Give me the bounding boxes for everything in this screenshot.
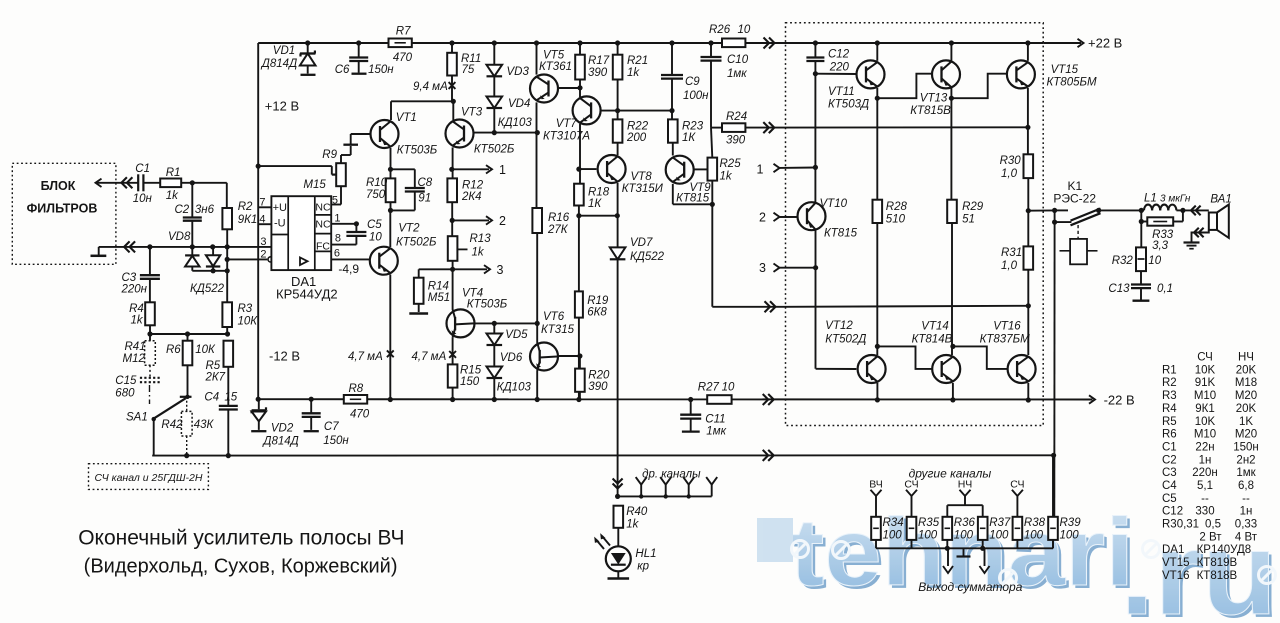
- svg-text:R2: R2: [1162, 377, 1177, 389]
- svg-text:VD2: VD2: [271, 423, 294, 435]
- svg-text:R4: R4: [1162, 403, 1177, 415]
- svg-text:КТ502Б: КТ502Б: [474, 144, 515, 156]
- svg-text:C2: C2: [1162, 454, 1177, 466]
- svg-text:1К: 1К: [682, 132, 696, 144]
- svg-text:390: 390: [588, 381, 608, 393]
- svg-text:100н: 100н: [683, 90, 709, 102]
- svg-text:R16: R16: [548, 212, 570, 224]
- svg-text:R6: R6: [166, 344, 181, 356]
- svg-text:2К4: 2К4: [461, 191, 482, 203]
- svg-text:R38: R38: [1024, 517, 1046, 529]
- svg-text:1мк: 1мк: [706, 426, 726, 438]
- svg-text:КТ315И: КТ315И: [622, 183, 664, 195]
- svg-text:VT7: VT7: [556, 118, 578, 130]
- svg-text:VD3: VD3: [507, 66, 530, 78]
- svg-text:--: --: [1201, 493, 1209, 505]
- svg-text:6: 6: [334, 248, 340, 260]
- svg-text:R6: R6: [1162, 429, 1177, 441]
- svg-text:-12 В: -12 В: [269, 349, 300, 364]
- svg-text:--: --: [1242, 493, 1250, 505]
- svg-text:2: 2: [759, 211, 766, 225]
- svg-text:R22: R22: [627, 121, 649, 133]
- svg-text:VD7: VD7: [630, 237, 653, 249]
- svg-text:1н: 1н: [1240, 506, 1253, 518]
- svg-text:10К: 10К: [238, 316, 259, 328]
- svg-text:1K: 1K: [1239, 416, 1253, 428]
- svg-text:1k: 1k: [131, 315, 144, 327]
- svg-text:+22 В: +22 В: [1088, 36, 1122, 51]
- svg-text:СЧ: СЧ: [1010, 479, 1024, 491]
- svg-text:R35: R35: [918, 517, 940, 529]
- svg-text:1мк: 1мк: [727, 68, 747, 80]
- svg-text:100: 100: [1024, 530, 1044, 542]
- svg-text:СЧ: СЧ: [1197, 352, 1213, 364]
- svg-text:VT15: VT15: [1162, 557, 1190, 569]
- svg-text:R30,31: R30,31: [1162, 519, 1199, 531]
- svg-text:220: 220: [829, 62, 850, 74]
- svg-text:C3: C3: [1162, 467, 1177, 479]
- svg-text:КТ502Д: КТ502Д: [825, 334, 866, 346]
- svg-text:680: 680: [115, 388, 135, 400]
- svg-text:VT12: VT12: [825, 320, 853, 332]
- svg-text:VT11: VT11: [828, 86, 855, 98]
- svg-text:R28: R28: [886, 201, 908, 213]
- svg-text:750: 750: [366, 189, 386, 201]
- svg-text:0,33: 0,33: [1235, 519, 1257, 531]
- svg-text:15: 15: [224, 392, 237, 404]
- svg-text:КТ819В: КТ819В: [1197, 557, 1238, 569]
- svg-text:3: 3: [260, 236, 266, 248]
- svg-text:150н: 150н: [323, 435, 349, 447]
- svg-text:VT5: VT5: [543, 50, 565, 62]
- svg-text:C10: C10: [727, 54, 749, 66]
- svg-text:R42: R42: [161, 419, 183, 431]
- svg-text:Оконечный усилитель полосы ВЧ: Оконечный усилитель полосы ВЧ: [78, 527, 404, 550]
- svg-text:R21: R21: [627, 55, 648, 67]
- svg-text:2н2: 2н2: [1236, 454, 1255, 466]
- svg-text:КД103: КД103: [498, 117, 533, 129]
- svg-text:R5: R5: [206, 360, 221, 372]
- svg-text:470: 470: [393, 52, 413, 64]
- svg-text:C9: C9: [685, 76, 700, 88]
- svg-text:R3: R3: [1162, 390, 1177, 402]
- svg-text:М15: М15: [303, 179, 326, 191]
- svg-text:VT2: VT2: [398, 223, 420, 235]
- svg-text:VT6: VT6: [543, 311, 565, 323]
- svg-text:VT15: VT15: [1051, 64, 1079, 76]
- svg-text:75: 75: [462, 64, 475, 76]
- svg-text:1k: 1k: [720, 171, 733, 183]
- svg-text:КТ502Б: КТ502Б: [396, 237, 437, 249]
- svg-text:3: 3: [759, 261, 766, 275]
- svg-text:10K: 10K: [1195, 364, 1216, 376]
- svg-text:20K: 20K: [1236, 403, 1257, 415]
- svg-text:КД522: КД522: [190, 283, 225, 295]
- svg-text:5,1: 5,1: [1197, 480, 1213, 492]
- svg-text:10: 10: [722, 382, 735, 394]
- svg-text:1мк: 1мк: [1236, 467, 1256, 479]
- svg-text:РЭС-22: РЭС-22: [1053, 192, 1096, 206]
- svg-text:100: 100: [954, 530, 974, 542]
- svg-text:150: 150: [460, 376, 480, 388]
- svg-text:КТ361: КТ361: [539, 61, 572, 73]
- svg-text:VD4: VD4: [508, 98, 530, 110]
- svg-text:C8: C8: [418, 177, 433, 189]
- svg-text:VT1: VT1: [396, 112, 417, 124]
- svg-text:ВЧ: ВЧ: [869, 479, 883, 491]
- svg-text:М18: М18: [1235, 377, 1257, 389]
- svg-text:10: 10: [1148, 255, 1161, 267]
- svg-text:10К: 10К: [195, 344, 216, 356]
- svg-text:R10: R10: [366, 177, 388, 189]
- svg-text:1k: 1k: [472, 247, 485, 259]
- svg-text:3,3: 3,3: [1152, 240, 1169, 252]
- svg-text:VD1: VD1: [273, 45, 295, 57]
- svg-text:КД522: КД522: [630, 251, 665, 263]
- svg-text:1: 1: [499, 163, 506, 177]
- svg-text:4,7 мА: 4,7 мА: [412, 351, 447, 363]
- svg-text:R4: R4: [129, 303, 144, 315]
- svg-text:150н: 150н: [1233, 441, 1259, 453]
- svg-text:510: 510: [886, 214, 906, 226]
- svg-text:43К: 43К: [194, 419, 215, 431]
- svg-text:NC: NC: [315, 219, 331, 231]
- svg-text:C11: C11: [705, 414, 725, 426]
- svg-text:КТ503Б: КТ503Б: [397, 145, 438, 157]
- svg-text:R13: R13: [470, 233, 492, 245]
- svg-text:91K: 91K: [1195, 377, 1216, 389]
- svg-text:R14: R14: [428, 281, 449, 293]
- svg-text:R39: R39: [1060, 517, 1082, 529]
- svg-text:1k: 1k: [626, 519, 639, 531]
- svg-text:91: 91: [418, 193, 431, 205]
- svg-text:М51: М51: [428, 292, 450, 304]
- svg-text:кр: кр: [637, 561, 649, 573]
- svg-text:КР544УД2: КР544УД2: [276, 287, 338, 302]
- svg-text:C1: C1: [135, 163, 150, 175]
- svg-text:КТ805БМ: КТ805БМ: [1047, 77, 1097, 89]
- svg-text:4,7 мА: 4,7 мА: [348, 351, 383, 363]
- svg-text:КТ3107А: КТ3107А: [543, 131, 590, 143]
- svg-text:3 мкГн: 3 мкГн: [1160, 194, 1191, 205]
- svg-text:R18: R18: [588, 187, 610, 199]
- svg-text:VT14: VT14: [921, 321, 949, 333]
- svg-text:HL1: HL1: [635, 548, 656, 560]
- svg-text:R1: R1: [166, 167, 181, 179]
- svg-text:3н6: 3н6: [195, 204, 215, 216]
- svg-text:Д814Д: Д814Д: [261, 436, 298, 448]
- svg-text:М20: М20: [1235, 390, 1257, 402]
- svg-text:6,8: 6,8: [1238, 480, 1254, 492]
- svg-text:ВА1: ВА1: [1210, 194, 1231, 206]
- svg-text:КТ815: КТ815: [824, 228, 858, 240]
- svg-text:+12 В: +12 В: [265, 99, 299, 114]
- svg-text:R17: R17: [588, 55, 610, 67]
- svg-text:51: 51: [962, 214, 975, 226]
- svg-text:200: 200: [626, 132, 647, 144]
- svg-text:C13: C13: [1108, 283, 1130, 295]
- svg-text:9,4 мА: 9,4 мА: [413, 81, 448, 93]
- svg-text:0,1: 0,1: [1157, 283, 1173, 295]
- svg-text:220н: 220н: [1192, 467, 1218, 479]
- svg-text:1: 1: [757, 163, 764, 177]
- svg-text:0,5: 0,5: [1205, 519, 1221, 531]
- svg-text:20K: 20K: [1236, 364, 1257, 376]
- svg-text:1,0: 1,0: [1001, 168, 1018, 180]
- svg-text:-22 В: -22 В: [1104, 393, 1135, 408]
- svg-text:R24: R24: [726, 111, 747, 123]
- svg-text:470: 470: [350, 409, 370, 421]
- svg-text:R27: R27: [698, 382, 720, 394]
- svg-text:1К: 1К: [588, 198, 602, 210]
- svg-text:R5: R5: [1162, 416, 1177, 428]
- svg-text:R34: R34: [883, 517, 904, 529]
- svg-text:КТ815В: КТ815В: [910, 105, 951, 117]
- svg-text:-4,9: -4,9: [338, 262, 359, 276]
- svg-text:330: 330: [1195, 506, 1214, 518]
- svg-text:R30: R30: [1000, 155, 1022, 167]
- svg-text:КТ503Д: КТ503Д: [828, 99, 869, 111]
- svg-text:1: 1: [334, 213, 340, 225]
- svg-text:КР140УД8: КР140УД8: [1197, 544, 1252, 556]
- svg-text:100: 100: [1060, 530, 1080, 542]
- svg-text:R23: R23: [682, 121, 704, 133]
- svg-text:R9: R9: [322, 149, 337, 161]
- svg-text:10K: 10K: [1195, 416, 1216, 428]
- svg-text:(Видерхольд, Сухов, Коржевский: (Видерхольд, Сухов, Коржевский): [84, 556, 398, 578]
- svg-text:3: 3: [497, 263, 504, 277]
- svg-text:220н: 220н: [121, 284, 148, 296]
- svg-text:C7: C7: [324, 421, 339, 433]
- svg-text:R37: R37: [989, 517, 1011, 529]
- svg-text:R12: R12: [462, 180, 484, 192]
- svg-text:8: 8: [335, 233, 341, 245]
- svg-text:R19: R19: [587, 295, 609, 307]
- svg-text:СЧ: СЧ: [904, 479, 918, 491]
- svg-text:VT16: VT16: [993, 321, 1021, 333]
- svg-text:1k: 1k: [627, 67, 640, 79]
- svg-text:150н: 150н: [368, 64, 394, 76]
- svg-text:C2: C2: [175, 204, 190, 216]
- svg-text:КТ814В: КТ814В: [912, 334, 953, 346]
- svg-text:КД103: КД103: [497, 382, 532, 394]
- svg-text:100: 100: [989, 530, 1009, 542]
- svg-text:1н: 1н: [1199, 454, 1212, 466]
- svg-text:1k: 1k: [166, 190, 179, 202]
- svg-text:М12: М12: [123, 353, 146, 365]
- svg-text:R29: R29: [962, 201, 984, 213]
- svg-text:R41: R41: [125, 341, 146, 353]
- svg-text:R7: R7: [396, 26, 411, 38]
- svg-text:-U: -U: [274, 218, 286, 230]
- svg-text:4 Вт: 4 Вт: [1235, 531, 1258, 543]
- svg-text:М20: М20: [1235, 429, 1257, 441]
- svg-text:VT10: VT10: [820, 198, 848, 210]
- svg-text:10: 10: [369, 232, 382, 244]
- svg-text:C15: C15: [115, 375, 137, 387]
- svg-text:НЧ: НЧ: [1238, 352, 1254, 364]
- svg-text:VT16: VT16: [1162, 570, 1190, 582]
- svg-text:R20: R20: [588, 370, 610, 382]
- svg-text:C3: C3: [122, 272, 137, 284]
- svg-text:НЧ: НЧ: [958, 479, 973, 491]
- svg-text:2 Вт: 2 Вт: [1199, 531, 1222, 543]
- svg-text:R1: R1: [1162, 364, 1177, 376]
- svg-text:22н: 22н: [1195, 441, 1214, 453]
- svg-text:КТ815: КТ815: [676, 193, 710, 205]
- svg-text:2: 2: [499, 214, 506, 228]
- svg-text:R2: R2: [238, 201, 253, 213]
- svg-text:390: 390: [588, 67, 608, 79]
- svg-text:М10: М10: [1194, 429, 1216, 441]
- svg-text:VD8: VD8: [168, 231, 191, 243]
- svg-text:Выход сумматора: Выход сумматора: [918, 580, 1023, 594]
- svg-text:DA1: DA1: [1162, 544, 1184, 556]
- svg-text:C4: C4: [1162, 480, 1177, 492]
- svg-text:БЛОК: БЛОК: [41, 179, 76, 193]
- svg-text:390: 390: [726, 135, 746, 147]
- svg-text:5: 5: [332, 195, 338, 207]
- svg-text:100: 100: [883, 530, 903, 542]
- svg-text:SA1: SA1: [126, 412, 148, 424]
- svg-text:2К7: 2К7: [205, 372, 226, 384]
- svg-text:C6: C6: [335, 64, 350, 76]
- svg-text:C1: C1: [1162, 441, 1177, 453]
- svg-text:27К: 27К: [547, 224, 569, 236]
- svg-text:R32: R32: [1112, 255, 1134, 267]
- svg-text:9К1: 9К1: [1195, 403, 1215, 415]
- svg-text:1,0: 1,0: [1001, 260, 1018, 272]
- svg-text:R25: R25: [720, 158, 742, 170]
- svg-text:C5: C5: [367, 219, 382, 231]
- svg-text:VD6: VD6: [500, 352, 523, 364]
- svg-text:FC: FC: [316, 241, 330, 253]
- svg-text:СЧ канал и 25ГДШ-2Н: СЧ канал и 25ГДШ-2Н: [95, 472, 203, 484]
- svg-text:VT13: VT13: [920, 93, 948, 105]
- svg-text:R3: R3: [238, 303, 253, 315]
- svg-text:+U: +U: [273, 202, 287, 214]
- svg-text:10н: 10н: [133, 193, 153, 205]
- svg-text:VD5: VD5: [505, 329, 528, 341]
- svg-text:2: 2: [260, 249, 266, 261]
- svg-text:VT8: VT8: [631, 171, 653, 183]
- svg-text:9К1: 9К1: [238, 214, 258, 226]
- svg-text:6К8: 6К8: [587, 307, 607, 319]
- svg-text:C5: C5: [1162, 493, 1177, 505]
- svg-text:NC: NC: [315, 202, 331, 214]
- svg-text:ФИЛЬТРОВ: ФИЛЬТРОВ: [27, 202, 98, 216]
- svg-text:100: 100: [918, 530, 938, 542]
- svg-text:R15: R15: [460, 365, 482, 377]
- svg-text:10: 10: [738, 24, 751, 36]
- svg-text:VT3: VT3: [461, 107, 483, 119]
- svg-text:М10: М10: [1194, 390, 1216, 402]
- svg-text:C4: C4: [204, 392, 219, 404]
- svg-text:R31: R31: [1001, 247, 1022, 259]
- svg-text:R8: R8: [349, 383, 364, 395]
- svg-text:КТ837БМ: КТ837БМ: [980, 334, 1030, 346]
- svg-text:КТ315: КТ315: [541, 324, 575, 336]
- svg-text:4: 4: [259, 213, 265, 225]
- svg-text:другие каналы: другие каналы: [909, 467, 992, 481]
- svg-text:КТ503Б: КТ503Б: [467, 299, 508, 311]
- svg-text:L1: L1: [1144, 193, 1157, 205]
- svg-text:КТ818В: КТ818В: [1197, 570, 1238, 582]
- svg-text:R40: R40: [626, 506, 648, 518]
- svg-text:R36: R36: [954, 517, 976, 529]
- svg-text:Д814Д: Д814Д: [260, 58, 297, 70]
- svg-text:R26: R26: [709, 24, 731, 36]
- svg-text:7: 7: [259, 197, 265, 209]
- svg-text:C12: C12: [828, 49, 850, 61]
- svg-text:C12: C12: [1162, 506, 1183, 518]
